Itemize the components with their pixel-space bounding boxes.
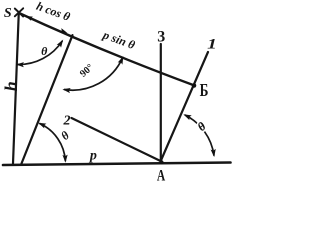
- svg-text:p: p: [89, 148, 97, 163]
- svg-text:A: A: [157, 168, 165, 184]
- svg-text:Б: Б: [200, 81, 209, 100]
- svg-text:1: 1: [207, 36, 217, 52]
- svg-text:2: 2: [63, 113, 71, 128]
- svg-text:h: h: [1, 81, 21, 91]
- svg-text:S: S: [4, 6, 12, 21]
- svg-text:θ: θ: [41, 44, 48, 58]
- svg-text:3: 3: [157, 29, 165, 46]
